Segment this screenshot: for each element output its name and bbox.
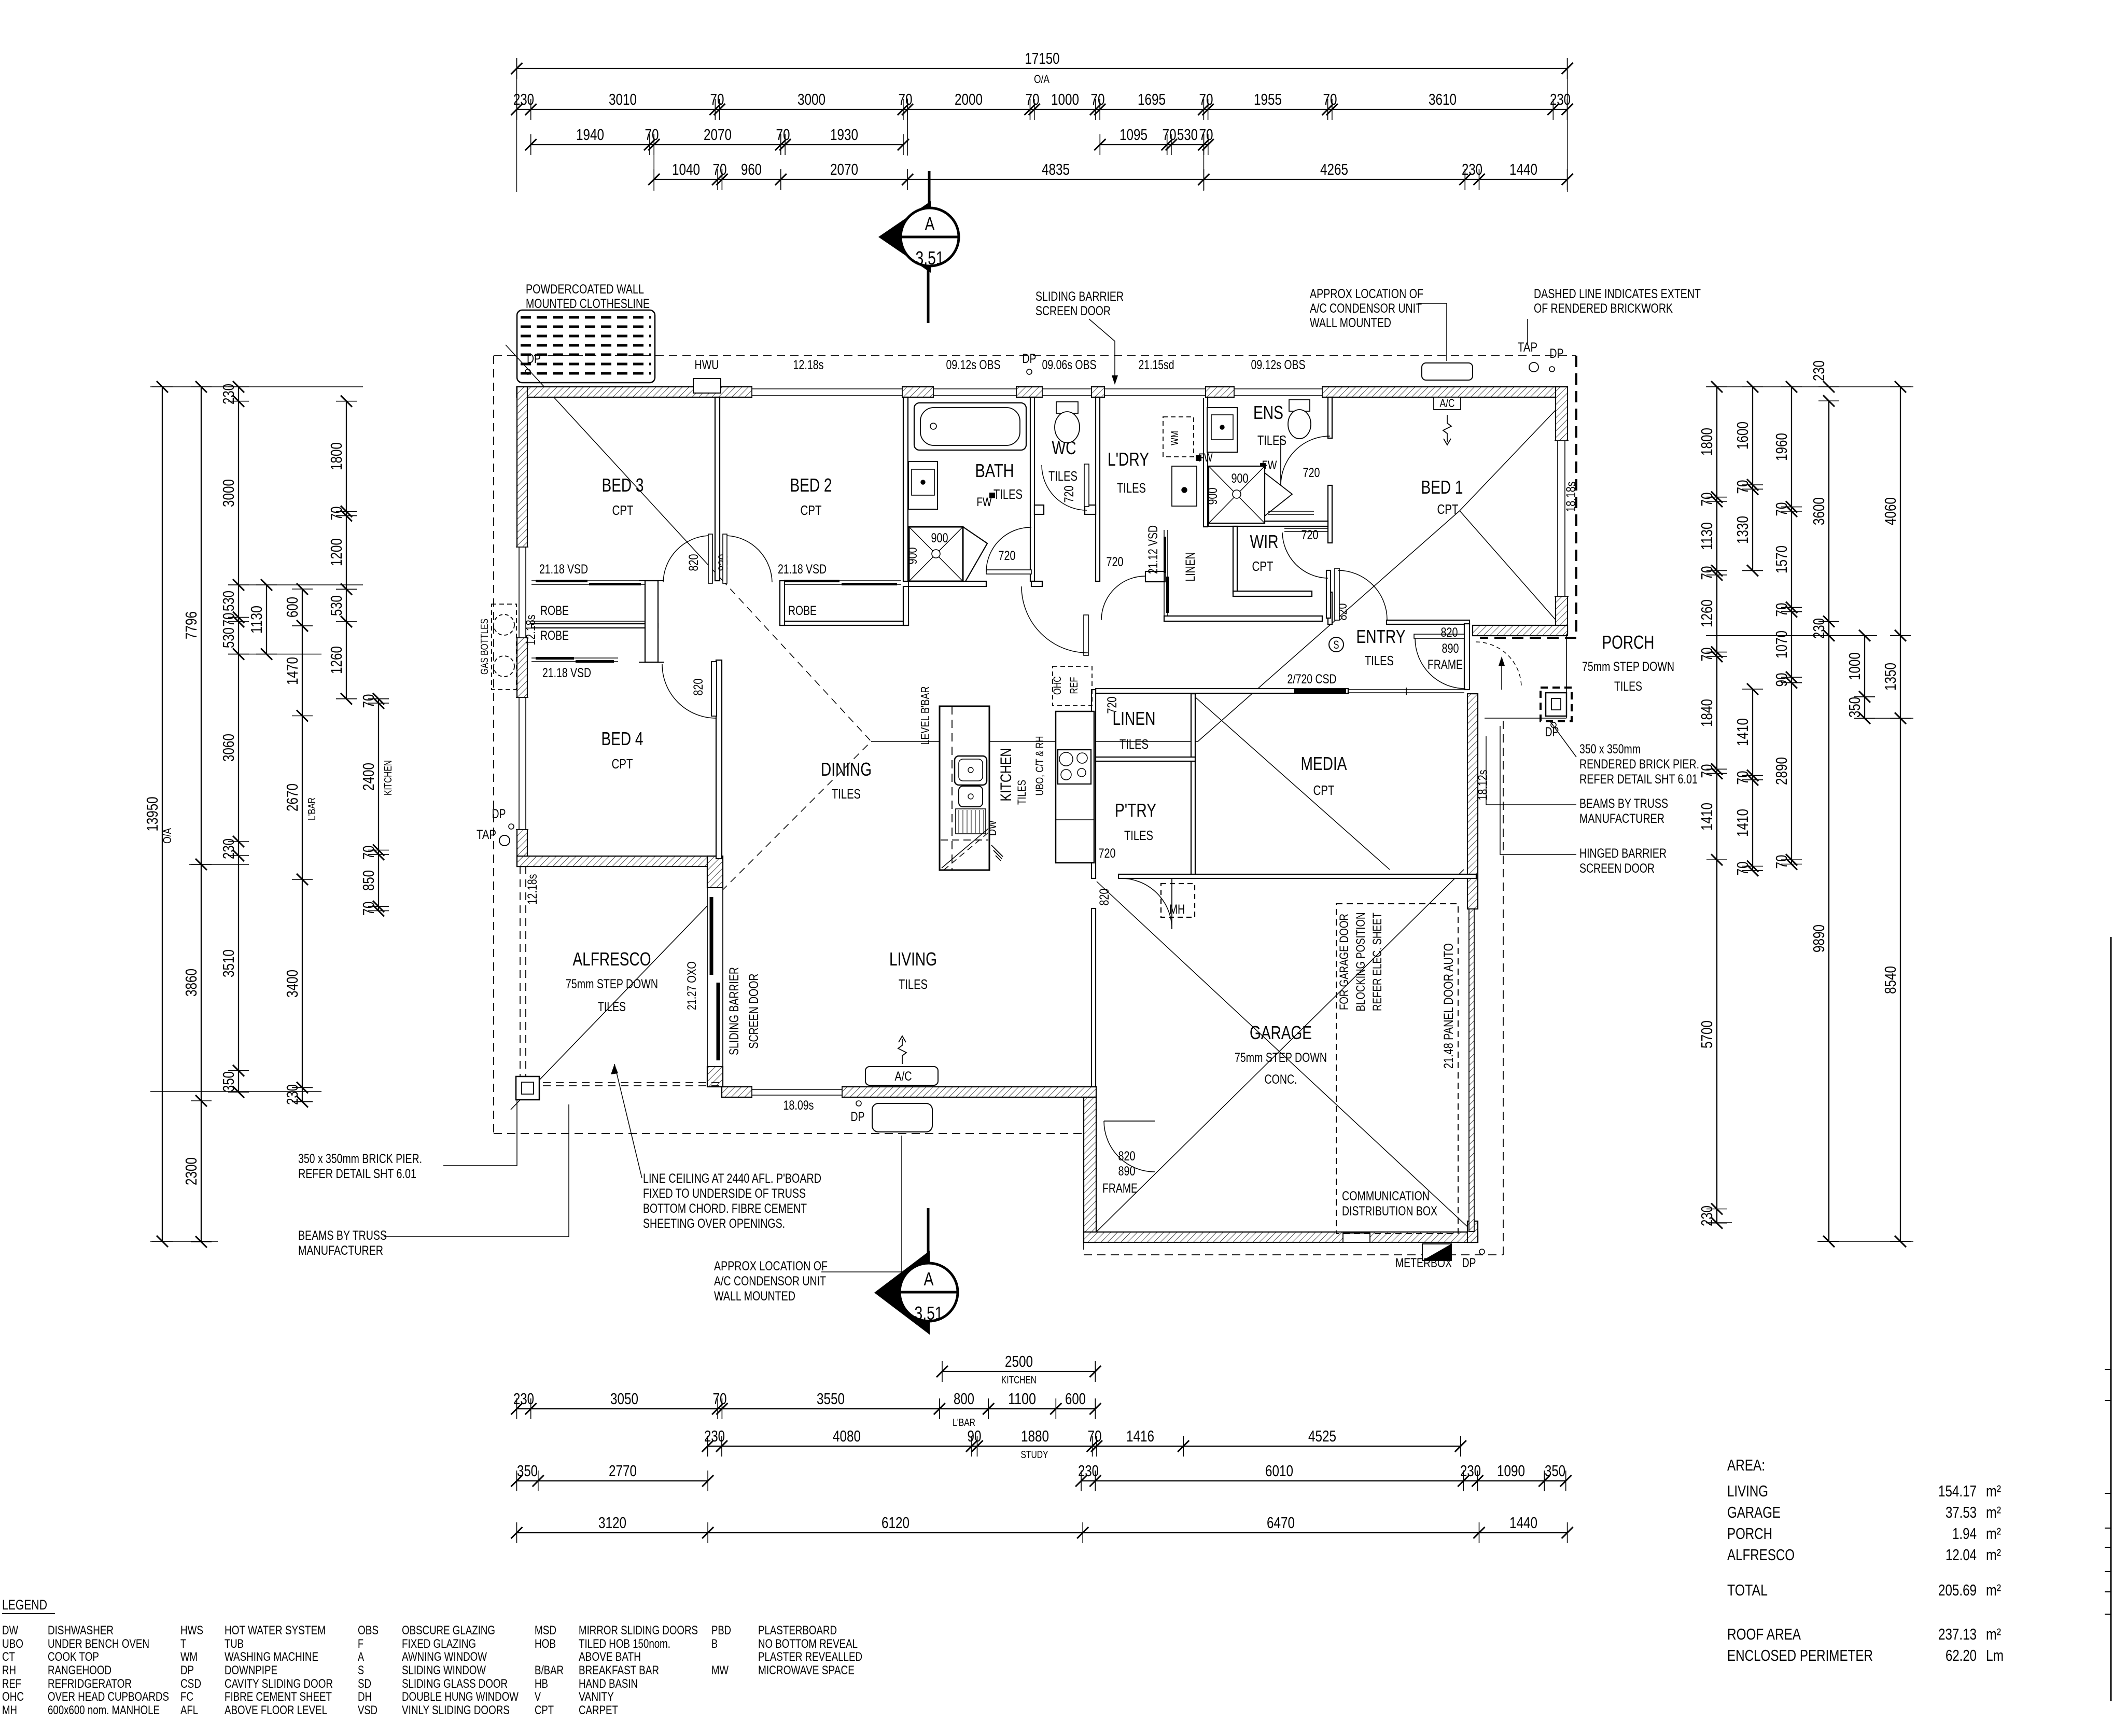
bold dashed rendered brickwork at porch bbox=[1575, 356, 1577, 638]
wir shelf bbox=[1284, 528, 1328, 529]
svg-text:LIVING: LIVING bbox=[889, 948, 937, 970]
svg-text:09.06s OBS: 09.06s OBS bbox=[1042, 358, 1097, 372]
svg-text:3610: 3610 bbox=[1429, 90, 1457, 108]
window 09.12s OBS bath bbox=[933, 386, 1016, 398]
svg-text:820: 820 bbox=[1097, 889, 1112, 906]
svg-text:3120: 3120 bbox=[598, 1514, 626, 1532]
svg-text:720: 720 bbox=[1107, 555, 1124, 569]
svg-text:DISTRIBUTION BOX: DISTRIBUTION BOX bbox=[1342, 1204, 1437, 1219]
svg-text:3.51: 3.51 bbox=[915, 1303, 943, 1324]
kitchen back bench bbox=[1056, 711, 1094, 863]
section marker A/3.51 top bbox=[878, 171, 959, 323]
svg-text:1930: 1930 bbox=[830, 125, 858, 144]
svg-text:350: 350 bbox=[1545, 1462, 1565, 1480]
svg-text:ENCLOSED PERIMETER: ENCLOSED PERIMETER bbox=[1727, 1646, 1873, 1664]
svg-text:m²: m² bbox=[1986, 1625, 2001, 1643]
bath vanity bbox=[908, 461, 937, 509]
bed4 robe VSD doors 21.18 bbox=[531, 657, 618, 659]
svg-text:TILES: TILES bbox=[1015, 780, 1028, 805]
svg-text:2000: 2000 bbox=[955, 90, 983, 108]
partition ens-wir/bed1 mid bbox=[1328, 485, 1332, 543]
svg-text:900: 900 bbox=[1232, 471, 1249, 486]
dimension chain left row2 bbox=[201, 387, 202, 1242]
window 09.06s OBS wc bbox=[1042, 386, 1092, 398]
dimension chain left row5 bbox=[346, 401, 347, 699]
svg-text:70: 70 bbox=[1733, 771, 1752, 785]
sheet edge line right bbox=[2110, 937, 2112, 1701]
wir west / linen east wall bbox=[1233, 526, 1237, 594]
svg-text:21.18 VSD: 21.18 VSD bbox=[778, 562, 827, 577]
extension lines left bbox=[150, 386, 363, 387]
svg-text:DP: DP bbox=[1462, 1256, 1476, 1270]
svg-text:70: 70 bbox=[1163, 125, 1177, 144]
partition wc/ldry bbox=[1096, 397, 1100, 581]
smoke detector S bbox=[1329, 637, 1344, 652]
porch step arrow bbox=[1501, 660, 1502, 690]
svg-text:1955: 1955 bbox=[1254, 90, 1282, 108]
svg-text:720: 720 bbox=[1105, 697, 1120, 714]
svg-text:70: 70 bbox=[1698, 648, 1716, 662]
alfresco south open edge (dashed) bbox=[517, 1082, 722, 1083]
bed1 right wall bbox=[1556, 387, 1568, 634]
svg-text:12.18s: 12.18s bbox=[524, 615, 538, 646]
dimension chain right 1000/350 bbox=[1864, 636, 1865, 719]
svg-text:m²: m² bbox=[1986, 1581, 2001, 1599]
dimension chain left row4 bbox=[302, 589, 303, 1102]
svg-text:APPROX LOCATION OF: APPROX LOCATION OF bbox=[1310, 287, 1423, 301]
svg-text:POWDERCOATED WALL: POWDERCOATED WALL bbox=[526, 282, 644, 297]
partition wir/bed1 lower bbox=[1328, 592, 1332, 624]
svg-text:1000: 1000 bbox=[1051, 90, 1079, 108]
svg-text:75mm STEP DOWN: 75mm STEP DOWN bbox=[1582, 660, 1674, 674]
door arc corridor bbox=[1021, 586, 1088, 653]
dimension chain left kitchen chain bbox=[378, 699, 379, 911]
svg-text:CPT: CPT bbox=[535, 1703, 554, 1717]
wc south wall west jamb bbox=[1034, 505, 1044, 514]
svg-text:09.12s OBS: 09.12s OBS bbox=[1251, 358, 1306, 372]
svg-text:70: 70 bbox=[713, 160, 727, 178]
door leaf bed2 bbox=[723, 534, 727, 583]
svg-text:SCREEN DOOR: SCREEN DOOR bbox=[747, 974, 761, 1049]
wir door jamb wall bbox=[1326, 570, 1331, 618]
svg-text:350: 350 bbox=[1845, 697, 1864, 718]
svg-text:CPT: CPT bbox=[612, 756, 633, 772]
svg-text:1800: 1800 bbox=[1698, 428, 1716, 456]
svg-text:CPT: CPT bbox=[1252, 558, 1274, 574]
svg-text:900: 900 bbox=[905, 548, 920, 565]
roof ridge entry bbox=[1198, 511, 1460, 741]
svg-text:KITCHEN: KITCHEN bbox=[998, 748, 1015, 802]
roof hip garage b bbox=[1097, 881, 1473, 1231]
svg-text:230: 230 bbox=[1462, 160, 1482, 178]
svg-text:KITCHEN: KITCHEN bbox=[1001, 1375, 1037, 1386]
door arc hall to garage area bbox=[1121, 878, 1172, 929]
MH manhole bbox=[1161, 884, 1195, 917]
svg-text:GARAGE: GARAGE bbox=[1250, 1022, 1312, 1043]
svg-text:UBO, C/T & RH: UBO, C/T & RH bbox=[1034, 736, 1046, 796]
svg-text:1960: 1960 bbox=[1772, 433, 1790, 461]
svg-text:1070: 1070 bbox=[1772, 631, 1790, 659]
svg-text:820: 820 bbox=[691, 679, 706, 696]
alfresco/living boundary wall stub top bbox=[707, 856, 723, 888]
svg-text:FRAME: FRAME bbox=[1428, 657, 1463, 672]
svg-text:600: 600 bbox=[283, 597, 301, 618]
svg-text:205.69: 205.69 bbox=[1938, 1581, 1977, 1599]
svg-text:m²: m² bbox=[1986, 1482, 2001, 1500]
partition bed2/bath bbox=[903, 397, 908, 581]
linen closet VSD line bbox=[1164, 530, 1165, 618]
bath door leaf bbox=[986, 570, 1031, 574]
svg-text:1260: 1260 bbox=[327, 646, 345, 674]
bed4 south wall / alfresco north bbox=[517, 856, 722, 866]
svg-text:REFER DETAIL SHT 6.01: REFER DETAIL SHT 6.01 bbox=[298, 1167, 416, 1181]
dimension chain top overall 17150 bbox=[517, 68, 1568, 69]
svg-text:3.51: 3.51 bbox=[916, 247, 944, 269]
sw corner pier bbox=[516, 1076, 539, 1100]
kitchen/pantry west wall bbox=[1092, 690, 1096, 878]
svg-text:3010: 3010 bbox=[609, 90, 637, 108]
svg-text:70: 70 bbox=[1772, 855, 1790, 869]
svg-text:CT: CT bbox=[2, 1650, 15, 1664]
dimension chain top row3 left bbox=[531, 144, 903, 145]
svg-text:1880: 1880 bbox=[1021, 1427, 1049, 1445]
svg-text:WALL MOUNTED: WALL MOUNTED bbox=[1310, 316, 1391, 330]
svg-text:ABOVE BATH: ABOVE BATH bbox=[579, 1650, 641, 1664]
bed1 south wall brick bbox=[1473, 625, 1568, 636]
bed2 robe VSD doors 21.18 bbox=[780, 580, 901, 581]
svg-text:DP: DP bbox=[1550, 346, 1564, 361]
svg-text:1330: 1330 bbox=[1733, 516, 1752, 544]
svg-text:CONC.: CONC. bbox=[1265, 1072, 1297, 1087]
svg-text:NO BOTTOM REVEAL: NO BOTTOM REVEAL bbox=[758, 1637, 858, 1651]
door arc wir bbox=[1282, 533, 1328, 578]
svg-text:600: 600 bbox=[1065, 1390, 1086, 1408]
svg-text:WIR: WIR bbox=[1250, 531, 1279, 552]
ens/wir partition bbox=[1208, 521, 1328, 526]
svg-text:COOK TOP: COOK TOP bbox=[48, 1650, 99, 1664]
svg-text:MW: MW bbox=[711, 1663, 729, 1677]
svg-text:230: 230 bbox=[704, 1427, 725, 1445]
svg-text:1350: 1350 bbox=[1881, 663, 1899, 691]
svg-text:530: 530 bbox=[219, 627, 237, 648]
svg-text:TOTAL: TOTAL bbox=[1727, 1581, 1768, 1599]
robe T wall bbox=[645, 581, 658, 662]
gas bottles bbox=[492, 604, 516, 690]
svg-text:720: 720 bbox=[1303, 466, 1320, 480]
svg-text:37.53: 37.53 bbox=[1946, 1503, 1977, 1521]
svg-text:PLASTER REVEALLED: PLASTER REVEALLED bbox=[758, 1650, 862, 1664]
svg-text:70: 70 bbox=[1698, 493, 1716, 507]
svg-text:890: 890 bbox=[1442, 641, 1459, 656]
svg-text:A/C: A/C bbox=[895, 1069, 912, 1084]
bath west wall lower stub bbox=[903, 586, 908, 625]
svg-text:A: A bbox=[358, 1650, 364, 1664]
garage right wall stub bottom bbox=[1467, 1221, 1478, 1242]
svg-text:TILES: TILES bbox=[598, 1000, 626, 1014]
svg-text:2500: 2500 bbox=[1005, 1352, 1033, 1370]
dimension chain right row2b bbox=[1752, 689, 1753, 871]
svg-text:3510: 3510 bbox=[219, 949, 237, 977]
wc toilet bbox=[1056, 402, 1078, 413]
svg-text:6120: 6120 bbox=[881, 1514, 909, 1532]
dimension chain left row3 bbox=[238, 387, 239, 1092]
svg-text:SHEETING OVER OPENINGS.: SHEETING OVER OPENINGS. bbox=[643, 1216, 785, 1231]
svg-text:70: 70 bbox=[645, 125, 659, 144]
svg-text:800: 800 bbox=[954, 1390, 974, 1408]
svg-text:75mm STEP DOWN: 75mm STEP DOWN bbox=[566, 977, 658, 991]
svg-text:TILES: TILES bbox=[1048, 468, 1078, 484]
door arc garage internal bbox=[1104, 1121, 1155, 1172]
svg-text:TILES: TILES bbox=[993, 486, 1023, 502]
svg-text:DP: DP bbox=[527, 352, 541, 366]
outer wall top bbox=[517, 387, 1568, 397]
svg-text:LEGEND: LEGEND bbox=[2, 1597, 47, 1613]
bed2 robe left wall bbox=[780, 581, 785, 625]
garage door dashed blocking rect bbox=[1336, 904, 1458, 1234]
svg-text:OHC: OHC bbox=[2, 1690, 24, 1704]
svg-text:230: 230 bbox=[513, 90, 534, 108]
island sink double bowl bbox=[955, 756, 987, 785]
svg-text:70: 70 bbox=[776, 125, 790, 144]
svg-text:SLIDING GLASS DOOR: SLIDING GLASS DOOR bbox=[402, 1677, 508, 1691]
svg-text:APPROX LOCATION OF: APPROX LOCATION OF bbox=[714, 1259, 828, 1273]
laundry trough bbox=[1172, 466, 1197, 506]
porch pier bbox=[1546, 693, 1566, 716]
roof hip bed1 top bbox=[1460, 399, 1566, 511]
garage left wall bbox=[1084, 1097, 1096, 1242]
svg-text:SCREEN DOOR: SCREEN DOOR bbox=[1035, 304, 1111, 318]
garage bottom wall bbox=[1084, 1232, 1478, 1242]
svg-text:1040: 1040 bbox=[672, 160, 700, 178]
svg-text:ROBE: ROBE bbox=[540, 604, 569, 618]
svg-text:70: 70 bbox=[219, 613, 237, 627]
svg-text:BREAKFAST BAR: BREAKFAST BAR bbox=[579, 1663, 659, 1677]
svg-text:70: 70 bbox=[359, 694, 377, 708]
dimension chain top row3 right bbox=[1100, 144, 1208, 145]
svg-text:SLIDING BARRIER: SLIDING BARRIER bbox=[727, 967, 741, 1055]
svg-text:Lm: Lm bbox=[1986, 1646, 2004, 1664]
svg-text:154.17: 154.17 bbox=[1938, 1482, 1977, 1500]
dimension chain top row4 bbox=[654, 179, 1567, 180]
svg-text:1090: 1090 bbox=[1497, 1462, 1525, 1480]
svg-text:3400: 3400 bbox=[283, 970, 301, 998]
dimension chain left overall 13950 bbox=[162, 387, 163, 1241]
svg-text:PORCH: PORCH bbox=[1602, 632, 1655, 653]
svg-text:MIRROR SLIDING DOORS: MIRROR SLIDING DOORS bbox=[579, 1623, 698, 1637]
svg-text:MANUFACTURER: MANUFACTURER bbox=[298, 1243, 383, 1258]
svg-text:70: 70 bbox=[1091, 90, 1105, 108]
svg-text:BED 2: BED 2 bbox=[790, 474, 832, 496]
svg-text:530: 530 bbox=[327, 595, 345, 616]
svg-text:230: 230 bbox=[513, 1390, 534, 1408]
window 12.18s bed3 left bbox=[516, 547, 528, 638]
svg-text:8540: 8540 bbox=[1881, 966, 1899, 994]
island drainer bbox=[956, 809, 986, 834]
svg-text:VSD: VSD bbox=[358, 1703, 377, 1717]
svg-text:SCREEN DOOR: SCREEN DOOR bbox=[1579, 861, 1655, 876]
svg-text:70: 70 bbox=[359, 846, 377, 860]
svg-text:TILES: TILES bbox=[899, 976, 928, 992]
svg-text:HOT WATER SYSTEM: HOT WATER SYSTEM bbox=[225, 1623, 326, 1637]
svg-text:LINEN: LINEN bbox=[1183, 552, 1198, 582]
HWU unit bbox=[693, 379, 721, 393]
svg-text:MOUNTED CLOTHESLINE: MOUNTED CLOTHESLINE bbox=[526, 297, 650, 311]
svg-text:O/A: O/A bbox=[161, 828, 174, 844]
svg-text:A: A bbox=[925, 213, 935, 234]
svg-text:REF: REF bbox=[2, 1677, 21, 1691]
svg-text:S: S bbox=[1334, 638, 1339, 651]
svg-text:17150: 17150 bbox=[1025, 49, 1060, 67]
svg-text:820: 820 bbox=[1118, 1149, 1136, 1164]
svg-text:CPT: CPT bbox=[1313, 782, 1335, 798]
window 09.12s OBS ens bbox=[1234, 386, 1322, 398]
svg-text:12.18s: 12.18s bbox=[525, 874, 540, 905]
svg-text:TILES: TILES bbox=[1365, 653, 1394, 668]
svg-text:1440: 1440 bbox=[1509, 160, 1537, 178]
entry east wall bbox=[1464, 624, 1470, 690]
svg-text:BEAMS BY TRUSS: BEAMS BY TRUSS bbox=[1579, 796, 1668, 811]
svg-text:1840: 1840 bbox=[1698, 699, 1716, 727]
svg-text:1940: 1940 bbox=[576, 125, 604, 144]
svg-text:FIBRE CEMENT SHEET: FIBRE CEMENT SHEET bbox=[225, 1690, 332, 1704]
svg-text:70: 70 bbox=[359, 902, 377, 916]
svg-text:DOWNPIPE: DOWNPIPE bbox=[225, 1663, 277, 1677]
door arc bed3 bbox=[663, 536, 708, 582]
dimension chain bottom row4a bbox=[517, 1480, 708, 1481]
svg-text:70: 70 bbox=[1026, 90, 1040, 108]
svg-text:1095: 1095 bbox=[1120, 125, 1148, 144]
door arc entry front bbox=[1415, 638, 1465, 689]
svg-text:237.13: 237.13 bbox=[1938, 1625, 1977, 1643]
cavity sliding doors 2/720 CSD bbox=[1294, 689, 1346, 693]
svg-text:230: 230 bbox=[1698, 1206, 1716, 1226]
svg-text:PBD: PBD bbox=[711, 1623, 731, 1637]
svg-text:METERBOX: METERBOX bbox=[1395, 1256, 1452, 1270]
svg-text:70: 70 bbox=[713, 1390, 727, 1408]
meterbox bbox=[1422, 1244, 1451, 1261]
svg-text:2070: 2070 bbox=[704, 125, 732, 144]
svg-text:1410: 1410 bbox=[1733, 718, 1752, 746]
dimension chain bottom row5 bbox=[517, 1532, 1568, 1533]
window 18.18s bed1 right bbox=[1555, 441, 1569, 596]
garage/media right wall bbox=[1467, 694, 1478, 909]
svg-text:m²: m² bbox=[1986, 1546, 2001, 1564]
wc south wall east jamb bbox=[1085, 505, 1096, 514]
svg-text:1130: 1130 bbox=[247, 606, 265, 634]
robe divider shelf bed3 bbox=[531, 621, 645, 622]
garage west wall upper bbox=[1092, 908, 1096, 1087]
svg-text:DISHWASHER: DISHWASHER bbox=[48, 1623, 114, 1637]
window 12.18s bed2/bed3 bbox=[752, 386, 902, 398]
svg-text:350: 350 bbox=[219, 1071, 237, 1092]
svg-text:3550: 3550 bbox=[817, 1390, 845, 1408]
svg-text:70: 70 bbox=[1199, 90, 1213, 108]
svg-text:FC: FC bbox=[180, 1690, 193, 1704]
svg-text:WASHING MACHINE: WASHING MACHINE bbox=[225, 1650, 318, 1664]
entry north wall / bed1 south inner bbox=[1387, 620, 1470, 624]
svg-text:ROBE: ROBE bbox=[788, 604, 817, 618]
svg-text:B/BAR: B/BAR bbox=[535, 1663, 564, 1677]
svg-text:HOB: HOB bbox=[535, 1637, 556, 1651]
svg-text:4060: 4060 bbox=[1881, 497, 1899, 525]
svg-text:A/C: A/C bbox=[1440, 397, 1455, 410]
svg-text:A: A bbox=[924, 1268, 934, 1290]
svg-text:REFER DETAIL SHT 6.01: REFER DETAIL SHT 6.01 bbox=[1579, 772, 1698, 787]
roof hip bed1 bottom bbox=[1460, 511, 1566, 632]
svg-text:LIVING: LIVING bbox=[1727, 1482, 1768, 1500]
svg-text:CPT: CPT bbox=[612, 502, 634, 518]
window 18.09s living south bbox=[752, 1086, 842, 1098]
kitchen island bench bbox=[940, 706, 989, 870]
svg-text:HWS: HWS bbox=[180, 1623, 203, 1637]
svg-text:850: 850 bbox=[359, 870, 377, 891]
svg-text:ENTRY: ENTRY bbox=[1356, 626, 1406, 647]
svg-text:TILES: TILES bbox=[1614, 679, 1642, 694]
svg-text:TUB: TUB bbox=[225, 1637, 244, 1651]
roof hip garage a bbox=[1095, 870, 1464, 1234]
svg-text:BOTTOM CHORD. FIBRE CEMENT: BOTTOM CHORD. FIBRE CEMENT bbox=[643, 1201, 807, 1216]
svg-text:1200: 1200 bbox=[327, 538, 345, 566]
svg-text:4525: 4525 bbox=[1308, 1427, 1336, 1445]
dimension chain right row5 bbox=[1900, 387, 1901, 1241]
svg-text:ROOF AREA: ROOF AREA bbox=[1727, 1625, 1801, 1643]
svg-text:CPT: CPT bbox=[801, 502, 822, 518]
svg-text:REFRIDGERATOR: REFRIDGERATOR bbox=[48, 1677, 132, 1691]
svg-text:DP: DP bbox=[180, 1663, 194, 1677]
svg-text:1000: 1000 bbox=[1845, 652, 1864, 680]
svg-text:21.15sd: 21.15sd bbox=[1139, 358, 1174, 372]
svg-text:MEDIA: MEDIA bbox=[1301, 753, 1347, 774]
svg-text:ABOVE FLOOR LEVEL: ABOVE FLOOR LEVEL bbox=[225, 1703, 327, 1717]
svg-text:FIXED TO UNDERSIDE OF TRUSS: FIXED TO UNDERSIDE OF TRUSS bbox=[643, 1186, 806, 1201]
svg-text:18.09s: 18.09s bbox=[783, 1098, 814, 1113]
svg-text:BED 3: BED 3 bbox=[602, 474, 644, 496]
svg-text:A/C CONDENSOR UNIT: A/C CONDENSOR UNIT bbox=[714, 1274, 826, 1289]
dimension chain bottom row3 bbox=[708, 1446, 1461, 1447]
svg-text:900: 900 bbox=[1206, 488, 1220, 505]
svg-text:3000: 3000 bbox=[219, 479, 237, 507]
svg-text:SLIDING WINDOW: SLIDING WINDOW bbox=[402, 1663, 486, 1677]
svg-text:TILES: TILES bbox=[832, 786, 861, 802]
garage panel door (21.48 panel door auto) bbox=[1469, 909, 1474, 1231]
svg-text:7796: 7796 bbox=[182, 611, 200, 639]
svg-text:70: 70 bbox=[899, 90, 913, 108]
clothesline bbox=[517, 310, 655, 383]
cooktop bbox=[1058, 750, 1091, 784]
svg-text:BATH: BATH bbox=[975, 460, 1014, 481]
partition bed3/bed2 bbox=[715, 397, 720, 581]
svg-text:820: 820 bbox=[687, 554, 701, 571]
svg-text:230: 230 bbox=[219, 838, 237, 859]
svg-text:70: 70 bbox=[1733, 480, 1752, 494]
svg-text:820: 820 bbox=[1441, 625, 1458, 640]
svg-text:CPT: CPT bbox=[1437, 501, 1459, 517]
svg-text:4265: 4265 bbox=[1320, 160, 1348, 178]
ens towel rail bbox=[1268, 511, 1314, 512]
dimension chain right row1 bbox=[1716, 387, 1717, 1223]
svg-text:KITCHEN: KITCHEN bbox=[383, 760, 394, 795]
svg-text:75mm STEP DOWN: 75mm STEP DOWN bbox=[1235, 1051, 1327, 1065]
AC unit top wall bbox=[1422, 363, 1473, 380]
svg-text:2400: 2400 bbox=[359, 763, 377, 791]
svg-text:4080: 4080 bbox=[833, 1427, 861, 1445]
svg-text:70: 70 bbox=[1323, 90, 1337, 108]
svg-text:1130: 1130 bbox=[1698, 522, 1716, 550]
svg-text:GAS BOTTLES: GAS BOTTLES bbox=[479, 619, 491, 675]
svg-text:OVER HEAD CUPBOARDS: OVER HEAD CUPBOARDS bbox=[48, 1690, 169, 1704]
svg-text:70: 70 bbox=[1772, 603, 1790, 617]
svg-text:21.18 VSD: 21.18 VSD bbox=[542, 666, 591, 680]
